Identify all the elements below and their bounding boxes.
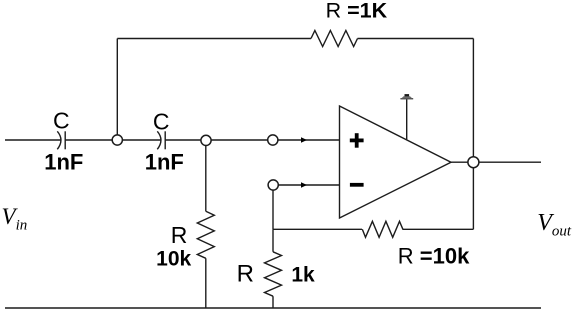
svg-text:10k: 10k — [156, 247, 191, 270]
svg-text:C: C — [153, 108, 170, 134]
svg-text:1nF: 1nF — [44, 150, 83, 175]
svg-text:Vin: Vin — [2, 204, 28, 234]
svg-text:R: R — [171, 222, 188, 248]
svg-text:R =10k: R =10k — [398, 243, 470, 268]
svg-text:C: C — [53, 108, 70, 134]
svg-text:1k: 1k — [291, 263, 315, 286]
svg-text:R: R — [237, 260, 254, 287]
svg-text:R =1K: R =1K — [326, 0, 388, 22]
svg-text:Vout: Vout — [537, 210, 572, 240]
svg-text:1nF: 1nF — [145, 150, 184, 175]
